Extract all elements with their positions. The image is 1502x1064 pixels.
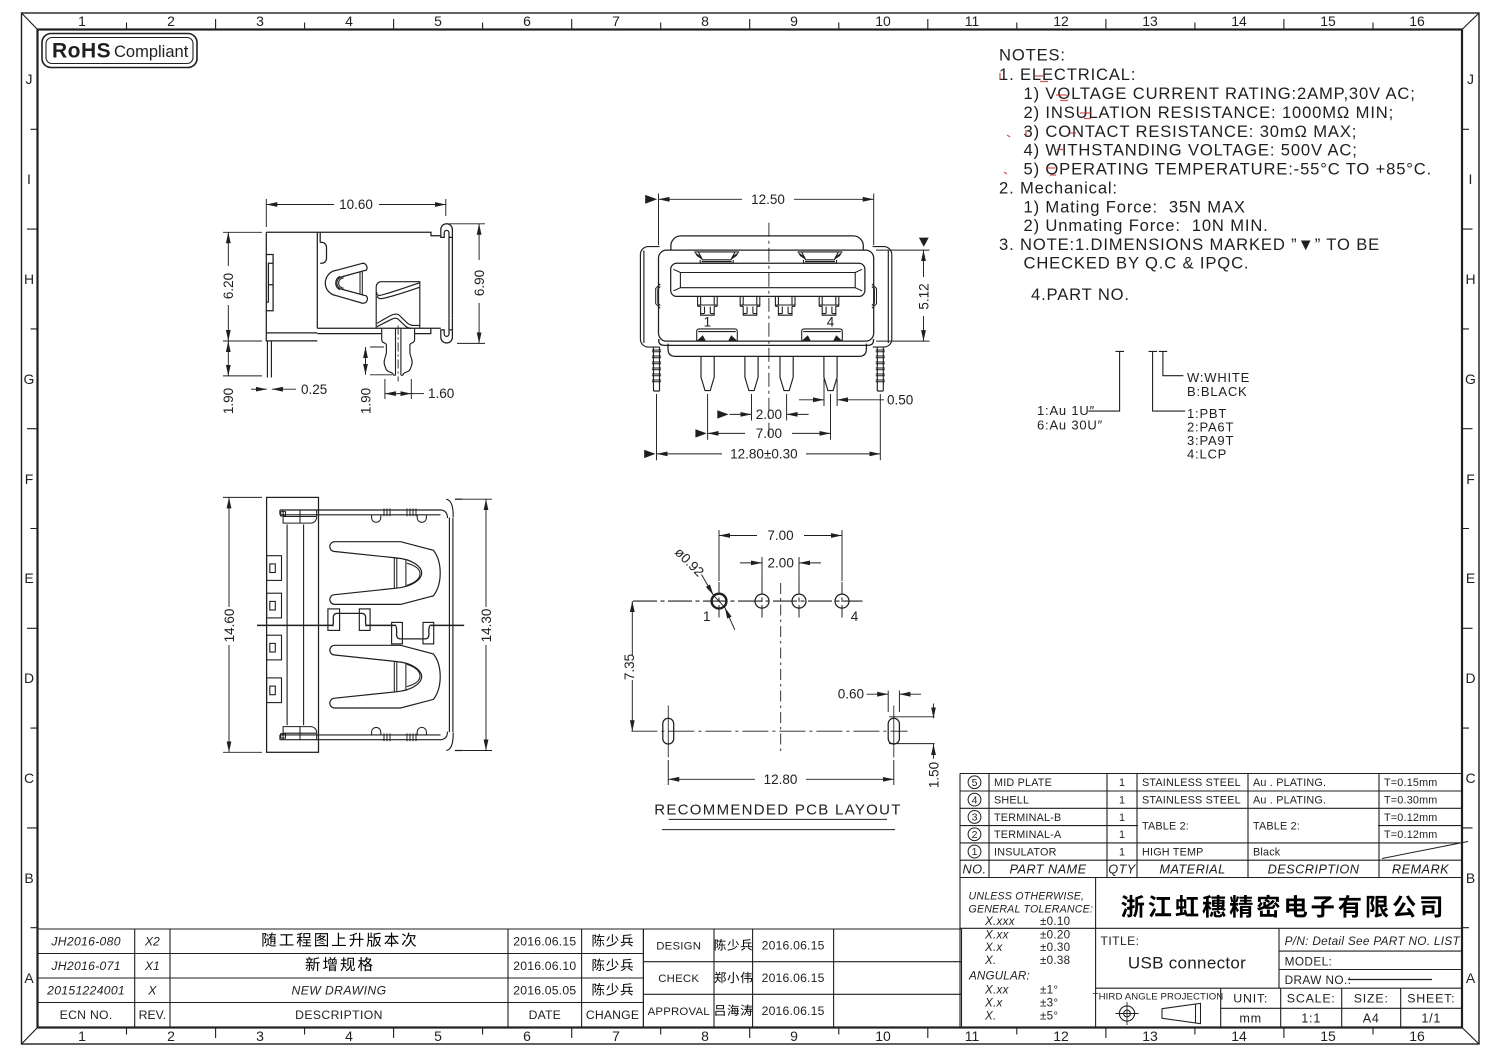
front view top latch bump (694, 252, 739, 263)
svg-text:14.60: 14.60 (222, 609, 237, 643)
svg-text:1: 1 (1119, 812, 1125, 824)
company name (1121, 895, 1144, 918)
pcb slot centerline horizontal (631, 730, 907, 732)
svg-text:2) Unmating Force: 10N MIN.: 2) Unmating Force: 10N MIN. (1024, 216, 1269, 235)
svg-text:2.00: 2.00 (768, 555, 794, 570)
dimension 12.80 pcb (668, 760, 894, 785)
front view centerline (768, 223, 770, 440)
svg-text:ø0.92: ø0.92 (672, 545, 707, 580)
svg-text:NEW DRAWING: NEW DRAWING (292, 983, 387, 997)
svg-text:G: G (24, 371, 35, 387)
dimension 1.90 middle (370, 347, 392, 375)
parts row 4 (968, 793, 981, 806)
svg-text:8: 8 (701, 13, 709, 29)
revision table (38, 929, 644, 1027)
svg-text:1:1: 1:1 (1301, 1012, 1321, 1026)
parts row 3 (968, 811, 981, 824)
svg-text:MODEL:: MODEL: (1285, 955, 1333, 969)
svg-text:9: 9 (790, 13, 798, 29)
svg-text:±0.20: ±0.20 (1040, 929, 1070, 942)
bottom view housing block (267, 497, 319, 752)
svg-text:TERMINAL-A: TERMINAL-A (994, 829, 1062, 841)
svg-text:H: H (1465, 271, 1475, 287)
svg-text:2. Mechanical:: 2. Mechanical: (999, 178, 1118, 197)
svg-text:3: 3 (256, 13, 264, 29)
svg-text:14.30: 14.30 (479, 609, 494, 643)
svg-text:1.90: 1.90 (359, 388, 374, 414)
svg-text:±1°: ±1° (1040, 984, 1058, 997)
pcb hole 1 (712, 594, 727, 609)
front view of connector (640, 236, 891, 357)
svg-text:1: 1 (704, 315, 712, 330)
side view pin centerline (397, 326, 399, 382)
svg-text:REV.: REV. (139, 1008, 166, 1022)
front view left ear latch wedge (656, 284, 661, 308)
svg-text:APPROVAL: APPROVAL (648, 1006, 710, 1018)
front view contact 2 (740, 297, 760, 315)
svg-text:CHANGE: CHANGE (586, 1008, 639, 1022)
svg-text:T=0.12mm: T=0.12mm (1384, 812, 1438, 824)
svg-text:RECOMMENDED PCB LAYOUT: RECOMMENDED PCB LAYOUT (654, 802, 902, 819)
svg-text:3) CONTACT RESISTANCE: 30mΩ MA: 3) CONTACT RESISTANCE: 30mΩ MAX; (1024, 122, 1358, 141)
svg-text:B:BLACK: B:BLACK (1187, 384, 1248, 399)
svg-text:STAINLESS STEEL: STAINLESS STEEL (1142, 794, 1241, 806)
svg-text:7.00: 7.00 (756, 426, 782, 441)
svg-text:J: J (26, 71, 33, 87)
svg-text:X1: X1 (144, 959, 160, 973)
svg-text:CHECKED BY Q.C & IPQC.: CHECKED BY Q.C & IPQC. (1024, 254, 1250, 273)
svg-text:4:LCP: 4:LCP (1187, 447, 1227, 462)
svg-text:D: D (1465, 670, 1475, 686)
svg-text:±5°: ±5° (1040, 1010, 1058, 1023)
bottom view of connector (267, 497, 319, 752)
svg-text:8: 8 (701, 1028, 709, 1044)
svg-text:SHELL: SHELL (994, 794, 1029, 806)
svg-text:1: 1 (972, 846, 978, 858)
svg-text:0.50: 0.50 (887, 392, 913, 407)
svg-text:G: G (1465, 371, 1476, 387)
svg-text:B: B (1466, 870, 1475, 886)
front view left ear (640, 247, 659, 348)
front view contact 1 (698, 297, 718, 315)
svg-text:13: 13 (1142, 13, 1158, 29)
front view terminal pin (701, 356, 714, 390)
front view right ear (873, 247, 892, 348)
svg-text:A: A (1466, 970, 1476, 986)
svg-text:2016.06.15: 2016.06.15 (513, 934, 576, 948)
svg-text:20151224001: 20151224001 (46, 983, 125, 997)
pcb hole 2 (755, 594, 769, 608)
bottom view shell bumps (372, 515, 427, 523)
svg-text:mm: mm (1239, 1012, 1262, 1026)
svg-text:1: 1 (1119, 794, 1125, 806)
parts row 2 (968, 828, 981, 841)
dimension 2.00 pcb (762, 557, 799, 590)
svg-text:12.80±0.30: 12.80±0.30 (730, 446, 797, 461)
svg-text:1: 1 (1119, 777, 1125, 789)
parts row 5 (968, 776, 981, 789)
svg-text:SIZE:: SIZE: (1354, 992, 1389, 1006)
svg-text:NO.: NO. (963, 861, 987, 876)
svg-text:UNLESS OTHERWISE,: UNLESS OTHERWISE, (969, 891, 1085, 903)
svg-text:7.00: 7.00 (767, 528, 793, 543)
front view side mount pin (652, 347, 661, 391)
svg-text:2: 2 (167, 13, 175, 29)
side view shell bottom edges (317, 328, 441, 333)
svg-text:1: 1 (78, 1028, 86, 1044)
bottom view shell edge bar bottom (280, 735, 441, 740)
svg-text:ANGULAR:: ANGULAR: (968, 970, 1030, 983)
side view plastic body bottom (266, 333, 317, 341)
svg-text:4: 4 (345, 13, 353, 29)
front view contact 4 (819, 297, 839, 315)
dimension 0.60 (888, 691, 899, 713)
svg-text:T=0.30mm: T=0.30mm (1384, 794, 1438, 806)
svg-text:16: 16 (1409, 13, 1425, 29)
svg-text:Au . PLATING.: Au . PLATING. (1253, 794, 1326, 806)
remark diagonal slash (1382, 842, 1468, 859)
svg-text:B: B (24, 870, 33, 886)
svg-text:DESCRIPTION: DESCRIPTION (295, 1008, 383, 1022)
dimension 5.12 (876, 250, 930, 341)
bottom view shell right corner curls (441, 499, 463, 732)
dimension 1.50 (889, 717, 935, 744)
svg-text:3: 3 (972, 812, 978, 824)
svg-text:NOTES:: NOTES: (999, 46, 1066, 65)
svg-text:6: 6 (523, 13, 531, 29)
svg-text:P/N: Detail See PART NO. LIST: P/N: Detail See PART NO. LIST (1285, 934, 1461, 948)
svg-text:DESIGN: DESIGN (656, 941, 701, 953)
dimension 7.00 (708, 394, 831, 440)
dimension 0.50 (824, 379, 837, 406)
svg-text:6.90: 6.90 (472, 270, 487, 296)
svg-text:1: 1 (703, 609, 711, 624)
svg-text:X.x: X.x (984, 997, 1004, 1010)
svg-text:12: 12 (1053, 13, 1069, 29)
svg-text:1.60: 1.60 (428, 386, 454, 401)
svg-text:12.80: 12.80 (764, 772, 798, 787)
svg-text:W:WHITE: W:WHITE (1187, 370, 1250, 385)
svg-text:X.xxx: X.xxx (984, 915, 1016, 928)
svg-text:CHECK: CHECK (658, 973, 699, 985)
dimension 10.60 (266, 199, 446, 227)
svg-text:USB connector: USB connector (1128, 954, 1246, 973)
dimension 14.30 (455, 499, 492, 750)
bottom view folded tab bottom (281, 727, 317, 741)
svg-text:2: 2 (167, 1028, 175, 1044)
front view shell back flange top (671, 236, 863, 250)
svg-text:1) Mating Force: 35N MAX: 1) Mating Force: 35N MAX (1024, 197, 1246, 216)
dimension 12.50 (659, 194, 874, 246)
svg-text:STAINLESS STEEL: STAINLESS STEEL (1142, 777, 1241, 789)
svg-text:3. NOTE:1.DIMENSIONS MARKED ”▼: 3. NOTE:1.DIMENSIONS MARKED ”▼” TO BE (999, 235, 1380, 254)
bottom view section centerline (257, 624, 464, 626)
svg-text:1:Au 1U″: 1:Au 1U″ (1037, 403, 1095, 418)
svg-text:RoHS: RoHS (52, 40, 111, 63)
svg-text:2016.06.15: 2016.06.15 (762, 971, 825, 985)
side view spring contact wing (325, 263, 367, 303)
svg-text:7: 7 (612, 13, 620, 29)
front view shell bottom lip (659, 339, 874, 345)
parts row 1 (968, 845, 981, 858)
svg-text:2.00: 2.00 (756, 407, 782, 422)
svg-text:10: 10 (875, 1028, 891, 1044)
svg-text:1.90: 1.90 (221, 388, 236, 414)
svg-text:4.PART NO.: 4.PART NO. (1031, 285, 1130, 304)
svg-text:DATE: DATE (529, 1008, 561, 1022)
front view right ear latch wedge (872, 284, 877, 308)
front view tongue (671, 263, 865, 296)
svg-text:X.: X. (984, 1010, 997, 1023)
svg-text:5) OPERATING TEMPERATURE:-55°C: 5) OPERATING TEMPERATURE:-55°C TO +85°C. (1024, 160, 1433, 179)
svg-text:5: 5 (434, 13, 442, 29)
approval block (643, 929, 961, 1027)
dimension 6.20 (223, 232, 262, 341)
svg-text:JH2016-080: JH2016-080 (50, 934, 120, 948)
dimension 7.00 pcb (719, 530, 842, 581)
bottom view pin section ticks (384, 509, 416, 742)
svg-text:1. ELECTRICAL:: 1. ELECTRICAL: (999, 65, 1136, 84)
svg-text:PART NAME: PART NAME (1009, 861, 1086, 876)
svg-text:GENERAL TOLERANCE:: GENERAL TOLERANCE: (969, 904, 1094, 916)
svg-text:4: 4 (972, 794, 978, 806)
red annotation marks (1000, 73, 1091, 175)
svg-text:UNIT:: UNIT: (1233, 992, 1268, 1006)
svg-text:±3°: ±3° (1040, 997, 1058, 1010)
svg-text:1: 1 (1119, 829, 1125, 841)
front view side mount pin (876, 347, 885, 391)
svg-text:T=0.12mm: T=0.12mm (1384, 829, 1438, 841)
svg-text:JH2016-071: JH2016-071 (50, 959, 120, 973)
svg-text:15: 15 (1320, 13, 1336, 29)
svg-text:ECN NO.: ECN NO. (60, 1008, 113, 1022)
svg-text:X.xx: X.xx (984, 929, 1010, 942)
svg-text:2016.06.15: 2016.06.15 (762, 939, 825, 953)
svg-text:13: 13 (1142, 1028, 1158, 1044)
svg-text:TABLE 2:: TABLE 2: (1142, 820, 1189, 832)
svg-text:4) WITHSTANDING VOLTAGE: 500V: 4) WITHSTANDING VOLTAGE: 500V AC; (1024, 141, 1358, 160)
svg-text:X.xx: X.xx (984, 984, 1010, 997)
dimension 1.60 (385, 379, 411, 399)
svg-text:QTY: QTY (1108, 861, 1137, 876)
bottom view contact spring wing (330, 542, 440, 605)
svg-text:±0.38: ±0.38 (1040, 954, 1070, 967)
bottom view shell edge bar top (280, 510, 441, 515)
svg-text:D: D (24, 670, 34, 686)
svg-text:2) INSULATION RESISTANCE: 1000: 2) INSULATION RESISTANCE: 1000MΩ MIN; (1024, 103, 1395, 122)
svg-text:10: 10 (875, 13, 891, 29)
svg-text:6:Au 30U″: 6:Au 30U″ (1037, 418, 1103, 433)
side view press-fit pin (382, 329, 415, 376)
svg-text:6.20: 6.20 (221, 273, 236, 299)
svg-text:12.50: 12.50 (751, 192, 785, 207)
title block (960, 878, 1462, 1028)
svg-text:I: I (1469, 171, 1473, 187)
svg-text:3: 3 (256, 1028, 264, 1044)
svg-text:±0.30: ±0.30 (1040, 941, 1070, 954)
svg-text:11: 11 (965, 1028, 980, 1044)
svg-text:C: C (24, 770, 34, 786)
parts list table (960, 774, 1462, 878)
bottom view latch windows (267, 556, 282, 703)
svg-text:0.25: 0.25 (301, 382, 327, 397)
svg-text:1: 1 (1119, 846, 1125, 858)
svg-text:X.: X. (984, 954, 997, 967)
svg-text:2016.06.15: 2016.06.15 (762, 1004, 825, 1018)
svg-text:Black: Black (1253, 846, 1281, 858)
svg-text:X: X (147, 983, 157, 997)
dimension 2.00 (752, 394, 787, 421)
svg-text:1) VOLTAGE CURRENT RATING:2AMP: 1) VOLTAGE CURRENT RATING:2AMP,30V AC; (1024, 84, 1416, 103)
svg-text:9: 9 (790, 1028, 798, 1044)
side view kink contact block (376, 282, 420, 329)
svg-text:12: 12 (1053, 1028, 1069, 1044)
svg-text:X2: X2 (144, 934, 160, 948)
front view bottom latch tab (697, 329, 738, 341)
svg-text:E: E (1466, 570, 1475, 586)
front view terminal pin (745, 356, 758, 390)
svg-text:F: F (25, 471, 34, 487)
svg-text:MID PLATE: MID PLATE (994, 777, 1052, 789)
svg-text:TERMINAL-B: TERMINAL-B (994, 812, 1061, 824)
svg-text:DESCRIPTION: DESCRIPTION (1268, 861, 1360, 876)
svg-text:H: H (24, 271, 34, 287)
front view shell front face (659, 250, 874, 341)
pcb hole centerline horizontal (633, 600, 863, 602)
svg-text:MATERIAL: MATERIAL (1159, 861, 1225, 876)
svg-text:Compliant: Compliant (114, 43, 189, 61)
dimension 14.60 (223, 497, 262, 752)
svg-text:SHEET:: SHEET: (1407, 992, 1455, 1006)
svg-text:TITLE:: TITLE: (1101, 934, 1140, 948)
diameter 0.92 leader (702, 575, 714, 596)
side view top-right shell curl (441, 224, 453, 319)
front view insulator bottom (668, 344, 866, 357)
svg-text:5.12: 5.12 (917, 283, 932, 309)
side view left terminal pin (267, 341, 271, 378)
side view plastic body left edge details (266, 255, 273, 333)
dimension 6.90 (447, 224, 485, 344)
side view shell outline (266, 232, 441, 254)
part number breakdown tree (1088, 351, 1185, 411)
front view terminal pin (824, 356, 837, 390)
svg-text:±0.10: ±0.10 (1040, 915, 1070, 928)
front view top latch bump (798, 252, 843, 263)
dimension 0.25 (251, 388, 267, 390)
svg-text:7: 7 (612, 1028, 620, 1044)
svg-text:A4: A4 (1363, 1012, 1380, 1026)
bottom view center latch details (328, 609, 434, 644)
svg-text:J: J (1467, 71, 1474, 87)
svg-text:2016.05.05: 2016.05.05 (513, 983, 576, 997)
svg-text:14: 14 (1231, 1028, 1247, 1044)
side view bottom-right curl (441, 319, 453, 343)
pcb hole 3 (792, 594, 806, 608)
svg-text:5: 5 (434, 1028, 442, 1044)
front view bottom latch tab (802, 329, 843, 341)
pcb slot right (888, 718, 899, 744)
pcb hole 4 (835, 594, 849, 608)
svg-text:5: 5 (972, 777, 978, 789)
bottom view contact spring wing (330, 645, 440, 708)
svg-text:2: 2 (972, 829, 978, 841)
svg-text:HIGH TEMP: HIGH TEMP (1142, 846, 1204, 858)
RoHS Compliant label (42, 34, 197, 68)
svg-text:1: 1 (78, 13, 86, 29)
svg-text:A: A (24, 970, 34, 986)
svg-text:6: 6 (523, 1028, 531, 1044)
dimension 7.35 (631, 601, 633, 655)
svg-text:X.x: X.x (984, 941, 1004, 954)
svg-text:0.60: 0.60 (838, 687, 864, 702)
svg-text:REMARK: REMARK (1392, 861, 1449, 876)
dimension 1.90 left (223, 375, 262, 377)
svg-text:F: F (1466, 471, 1475, 487)
svg-text:Au . PLATING.: Au . PLATING. (1253, 777, 1326, 789)
svg-text:1.50: 1.50 (927, 762, 942, 788)
svg-text:INSULATOR: INSULATOR (994, 846, 1057, 858)
svg-text:DRAW NO.:: DRAW NO.: (1285, 973, 1352, 987)
svg-text:11: 11 (965, 13, 980, 29)
svg-text:4: 4 (851, 609, 859, 624)
pcb slot left (663, 718, 674, 744)
svg-text:T=0.15mm: T=0.15mm (1384, 777, 1438, 789)
front view contact 3 (775, 297, 795, 315)
front view terminal pin (780, 356, 793, 390)
svg-text:1/1: 1/1 (1421, 1012, 1441, 1026)
svg-text:TABLE 2:: TABLE 2: (1253, 820, 1300, 832)
svg-text:7.35: 7.35 (622, 654, 637, 680)
svg-text:10.60: 10.60 (339, 197, 373, 212)
svg-text:15: 15 (1320, 1028, 1336, 1044)
pcb vertical centerline (780, 583, 782, 755)
svg-text:E: E (24, 570, 33, 586)
svg-text:4: 4 (345, 1028, 353, 1044)
side view cavity divider and hook (317, 232, 326, 328)
bottom view folded tab top (281, 510, 317, 523)
svg-text:THIRD ANGLE PROJECTION: THIRD ANGLE PROJECTION (1093, 992, 1224, 1003)
svg-text:4: 4 (827, 315, 835, 330)
svg-text:I: I (27, 171, 31, 187)
svg-text:14: 14 (1231, 13, 1247, 29)
svg-text:C: C (1465, 770, 1475, 786)
svg-text:SCALE:: SCALE: (1287, 992, 1336, 1006)
svg-text:16: 16 (1409, 1028, 1425, 1044)
side view of connector (266, 224, 452, 378)
dimension 12.80 plus-minus 0.30 (657, 394, 881, 460)
side view pin slot (396, 329, 401, 376)
svg-text:2016.06.10: 2016.06.10 (513, 959, 576, 973)
